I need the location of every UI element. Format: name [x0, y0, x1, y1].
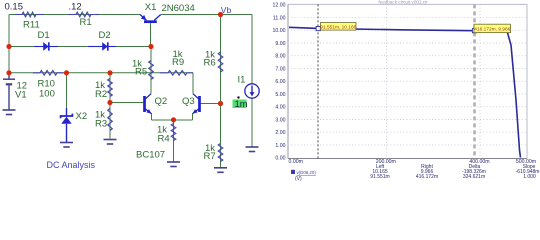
wire: top rail right segment to Vb — [161, 14, 252, 16]
wire: I1 column — [251, 15, 253, 147]
svg-text:V1: V1 — [15, 90, 27, 101]
transistor Q2 — [145, 94, 168, 114]
svg-text:0.00m: 0.00m — [289, 159, 303, 165]
x axis labels — [289, 159, 537, 165]
value 1m (highlighted) — [233, 96, 248, 110]
svg-text:R7: R7 — [204, 151, 216, 162]
wire: top rail left segment — [9, 14, 140, 16]
svg-text:1.000: 1.000 — [523, 174, 536, 180]
svg-text:R4: R4 — [158, 134, 170, 145]
svg-text:Q2: Q2 — [155, 96, 168, 107]
left cursor marker — [316, 27, 320, 31]
svg-text:D2: D2 — [99, 30, 111, 41]
svg-text:91.551m: 91.551m — [370, 174, 389, 180]
resistor R4 — [157, 124, 176, 145]
wire: R2/R3 divider column — [109, 73, 111, 139]
junction at battery / R10 row — [6, 70, 11, 75]
svg-text:R2: R2 — [95, 89, 107, 100]
svg-text:BC107: BC107 — [136, 149, 165, 160]
svg-text:1m: 1m — [235, 99, 248, 110]
wire: R4 column to ground — [173, 120, 175, 162]
wire: zener X2 column — [66, 73, 68, 113]
left cursor dashed line — [317, 4, 319, 158]
svg-text:0.15: 0.15 — [5, 1, 24, 12]
svg-text:324.621m: 324.621m — [463, 174, 485, 180]
wire: Q3 emitter down — [192, 114, 194, 121]
resistor R9 — [160, 49, 193, 75]
cursor table — [370, 164, 539, 180]
svg-text:91.551m, 10.166: 91.551m, 10.166 — [320, 24, 356, 30]
svg-text:.12: .12 — [69, 2, 82, 13]
svg-text:Q3: Q3 — [182, 96, 195, 107]
wire: R5 column down to Q2 collector — [150, 47, 152, 94]
svg-text:416.172m, 9.966: 416.172m, 9.966 — [474, 26, 510, 32]
resistor R1 — [68, 2, 100, 29]
plot frame — [288, 4, 527, 158]
transistor Q3 — [182, 94, 200, 114]
svg-text:5.00: 5.00 — [275, 92, 285, 98]
ground (R4) — [167, 162, 180, 167]
svg-text:R9: R9 — [172, 57, 184, 68]
wire: left vertical rail — [8, 15, 10, 75]
current source I1 1m — [238, 75, 260, 99]
wire: middle row y=72.5 (R10/R9 row) — [9, 72, 193, 74]
horizontal gridlines — [288, 17, 527, 144]
junction R2/R3 divider (Q2 base) — [107, 100, 112, 105]
svg-text:X1: X1 — [145, 2, 157, 13]
battery V1 12V — [3, 73, 27, 110]
svg-text:1.00: 1.00 — [275, 143, 285, 149]
plot title — [378, 0, 428, 5]
svg-text:12.00: 12.00 — [273, 3, 286, 9]
resistor R6 — [204, 50, 223, 73]
waveform curve — [289, 27, 521, 157]
svg-text:0.00: 0.00 — [275, 156, 285, 162]
svg-text:X2: X2 — [76, 111, 88, 122]
svg-text:feedback circuit v002.cir: feedback circuit v002.cir — [378, 0, 428, 5]
waveform legend — [291, 170, 316, 182]
svg-text:416.172m: 416.172m — [416, 174, 438, 180]
diode D1 — [34, 30, 58, 51]
svg-text:9.00: 9.00 — [275, 41, 285, 47]
wire: common emitter row y=120 — [152, 119, 193, 121]
svg-text:100: 100 — [39, 89, 55, 100]
ground (I1) — [246, 147, 259, 152]
wire: Q2 emitter down — [151, 114, 153, 121]
junction R6/R7 (Q3 base) — [218, 101, 223, 106]
resistor R11 — [5, 1, 45, 30]
svg-text:(V): (V) — [295, 176, 302, 182]
wire: Q2 base wire — [110, 102, 143, 104]
wire: Vb rail down through R6 and R7 — [220, 15, 222, 168]
node Vb — [221, 5, 232, 15]
right cursor dashed line — [473, 4, 476, 158]
junction X1 base / R5 / diode row — [148, 44, 153, 49]
svg-text:3.00: 3.00 — [275, 117, 285, 123]
label BC107 — [136, 149, 165, 160]
ground (zener X2) — [60, 143, 73, 148]
svg-text:R3: R3 — [95, 119, 107, 130]
ground (R7) — [214, 168, 227, 173]
svg-text:I1: I1 — [238, 75, 246, 86]
junction R10 / zener — [64, 70, 69, 75]
right cursor readout box — [474, 24, 511, 32]
svg-text:8.00: 8.00 — [275, 54, 285, 60]
svg-text:7.00: 7.00 — [275, 66, 285, 72]
svg-text:R1: R1 — [80, 17, 92, 28]
svg-text:6.00: 6.00 — [275, 79, 285, 85]
svg-text:R6: R6 — [204, 58, 216, 69]
ground (battery V1) — [3, 110, 16, 115]
resistor R2 — [95, 79, 112, 101]
wire: Q3 base wire — [201, 103, 221, 105]
junction at left rail / diode row — [6, 44, 11, 49]
left cursor readout box — [320, 23, 356, 31]
transistor X1 2N6034 — [140, 2, 195, 22]
resistor R3 — [95, 109, 112, 131]
svg-text:2N6034: 2N6034 — [162, 3, 195, 14]
svg-text:10.00: 10.00 — [273, 28, 286, 34]
svg-text:DC Analysis: DC Analysis — [47, 160, 96, 170]
wire: R9 to Q3 collector — [192, 73, 194, 94]
svg-text:4.00: 4.00 — [275, 105, 285, 111]
wire: X1 base down to node — [150, 23, 152, 47]
ground (R3) — [104, 140, 117, 145]
resistor R7 — [204, 143, 223, 162]
junction R2 top — [107, 70, 112, 75]
svg-text:R5: R5 — [135, 67, 147, 78]
svg-text:v(D08,20): v(D08,20) — [297, 170, 317, 175]
diode D2 — [88, 30, 116, 51]
junction common emitters / R4 — [171, 117, 176, 122]
label DC Analysis — [47, 160, 96, 170]
right cursor marker — [472, 29, 476, 33]
wire: diode row y=46 — [9, 46, 151, 48]
svg-text:2.00: 2.00 — [275, 130, 285, 136]
svg-text:11.00: 11.00 — [273, 15, 286, 21]
y axis labels — [273, 3, 286, 162]
zener diode X2 — [61, 108, 88, 143]
resistor R5 — [132, 59, 153, 80]
vertical gridlines — [387, 4, 481, 158]
svg-text:D1: D1 — [38, 30, 50, 41]
resistor R10 — [33, 71, 64, 100]
node Vb junction — [218, 12, 223, 17]
